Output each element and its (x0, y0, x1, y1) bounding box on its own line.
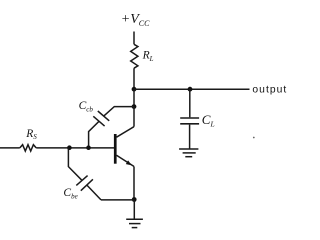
wire top bus to output (134, 88, 250, 90)
svg-text:RS: RS (25, 128, 37, 141)
svg-text:RL: RL (142, 50, 154, 63)
svg-text:Ccb: Ccb (79, 100, 94, 113)
stray speck (253, 137, 255, 139)
svg-text:output: output (252, 84, 287, 95)
svg-text:Cbe: Cbe (63, 187, 77, 200)
wire node E down to Cbe (68, 148, 82, 181)
wire Cbe to node F (101, 199, 134, 201)
transistor Q1 collector lead (117, 127, 134, 138)
wire node A to node C (133, 89, 135, 106)
wire Ccb to node D (89, 121, 99, 148)
capacitor CL (180, 118, 199, 124)
ground 1 symbol (126, 219, 143, 227)
node D junction (86, 145, 91, 150)
wire collector to node C (133, 107, 135, 127)
node E junction (67, 145, 72, 150)
node B junction (188, 87, 193, 92)
input wire (0, 147, 20, 149)
wire node C to Ccb (104, 107, 134, 117)
wire RS to transistor base (36, 147, 114, 149)
wire emitter down to node F (133, 166, 135, 199)
wire Vcc to RL (133, 32, 135, 45)
resistor RS (20, 145, 36, 151)
wire CL to ground 2 (189, 125, 191, 149)
transistor Q1 base bar (114, 134, 117, 164)
capacitor Cbe (76, 176, 93, 191)
capacitor Ccb (93, 111, 109, 126)
wire Cbe to corner (87, 185, 101, 200)
node A junction (132, 87, 137, 92)
ground 1 stem (133, 200, 135, 220)
svg-text:CL: CL (202, 112, 215, 129)
svg-text:+VCC: +VCC (121, 12, 150, 28)
transistor Q1 emitter lead (117, 155, 134, 166)
resistor RL (131, 44, 138, 68)
wire RL to node A (133, 68, 135, 89)
node C junction (132, 104, 137, 109)
ground 2 symbol (179, 149, 198, 157)
node F junction (132, 197, 137, 202)
transistor Q1 emitter arrow (126, 160, 132, 165)
wire node B to CL (189, 89, 191, 117)
